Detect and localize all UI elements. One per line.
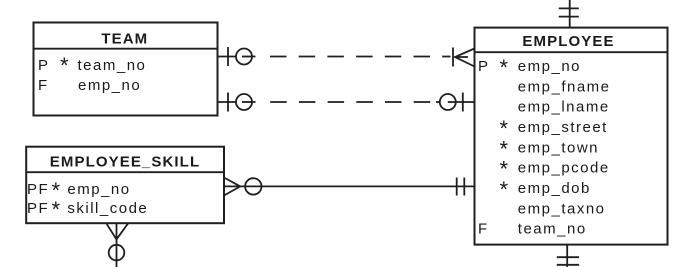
svg-text:TEAM: TEAM (101, 30, 148, 47)
tick mark at TEAM side (227, 93, 229, 112)
svg-text:team_no: team_no (518, 221, 587, 238)
svg-text:emp_town: emp_town (518, 139, 599, 156)
wire segment through circle centre (242, 56, 256, 58)
attribute F emp_no (38, 77, 141, 94)
attribute * emp_town (500, 136, 600, 161)
svg-text:emp_fname: emp_fname (518, 78, 611, 95)
svg-text:P: P (478, 58, 490, 75)
entity box EMPLOYEE_SKILL (26, 147, 224, 224)
relationship stub below EMPLOYEE (double tick) (557, 245, 579, 267)
relationship line TEAM to EMPLOYEE (upper, dashed) (217, 47, 474, 67)
svg-text:skill_code: skill_code (67, 200, 148, 217)
relationship line EMPLOYEE_SKILL to EMPLOYEE (solid) (224, 178, 475, 196)
circle (optional) at TEAM side (236, 94, 252, 110)
svg-text:EMPLOYEE: EMPLOYEE (522, 33, 614, 50)
wire from circle centre to EMPLOYEE edge (448, 101, 475, 103)
circle (optional) at TEAM side (236, 49, 252, 65)
svg-text:F: F (38, 77, 49, 94)
relationship stub below EMPLOYEE_SKILL (crow's foot down with circle) (106, 223, 128, 267)
svg-text:emp_no: emp_no (518, 58, 581, 75)
circle (optional) at EMPLOYEE side (440, 94, 456, 110)
svg-text:emp_lname: emp_lname (518, 99, 610, 116)
double tick marks at EMPLOYEE side (456, 178, 458, 196)
wire solid stub at TEAM side (217, 56, 236, 58)
svg-text:PF: PF (27, 200, 49, 217)
relationship stub above EMPLOYEE (double tick) (559, 0, 579, 28)
svg-text:F: F (478, 221, 489, 238)
wire segment through circle centre (242, 101, 256, 103)
attribute * emp_pcode (500, 157, 610, 182)
circle (optional) at EMPLOYEE_SKILL side (245, 178, 261, 194)
svg-text:emp_no: emp_no (78, 77, 141, 94)
relationship line TEAM to EMPLOYEE (lower, dashed) (217, 93, 474, 112)
wire solid span (224, 185, 475, 187)
crow's foot at EMPLOYEE side (455, 49, 475, 67)
tick mark 2 (557, 264, 579, 266)
wire vertical (569, 0, 571, 28)
entity box TEAM (34, 23, 218, 116)
wire vertical (566, 245, 568, 267)
svg-text:*: * (500, 55, 509, 80)
attribute P * emp_no (478, 55, 581, 80)
crow's foot at EMPLOYEE_SKILL side (224, 178, 240, 196)
wire solid stub at TEAM side (217, 101, 236, 103)
wire short dash before circle (436, 101, 440, 103)
wire dashed span (258, 56, 451, 58)
svg-text:*: * (60, 53, 69, 78)
svg-text:emp_no: emp_no (67, 181, 130, 198)
tick mark at EMPLOYEE side (462, 93, 464, 112)
svg-text:emp_dob: emp_dob (518, 180, 591, 197)
tick mark at TEAM side (227, 47, 229, 66)
svg-text:emp_pcode: emp_pcode (518, 160, 610, 177)
svg-text:PF: PF (27, 181, 49, 198)
tick mark 1 (557, 256, 579, 258)
attribute PF * emp_no (27, 178, 131, 203)
tick mark 1 (559, 7, 579, 9)
tick mark at EMPLOYEE side (452, 48, 454, 67)
entity box EMPLOYEE (475, 28, 668, 245)
wire dashed span (258, 101, 433, 103)
svg-text:*: * (52, 197, 61, 222)
svg-text:emp_taxno: emp_taxno (518, 200, 606, 217)
attribute P * team_no (38, 53, 146, 78)
circle (optional) (109, 245, 125, 261)
tick mark 2 (559, 16, 579, 18)
wire vertical (116, 223, 118, 267)
svg-text:*: * (500, 177, 509, 202)
attribute * emp_dob (500, 177, 591, 202)
attribute * emp_street (500, 116, 608, 141)
svg-text:team_no: team_no (78, 57, 147, 74)
svg-text:EMPLOYEE_SKILL: EMPLOYEE_SKILL (50, 153, 200, 170)
svg-text:P: P (38, 57, 50, 74)
crow's foot pointing down (106, 223, 128, 239)
attribute PF * skill_code (27, 197, 148, 222)
svg-text:emp_street: emp_street (518, 119, 608, 136)
attribute F team_no (478, 221, 587, 238)
